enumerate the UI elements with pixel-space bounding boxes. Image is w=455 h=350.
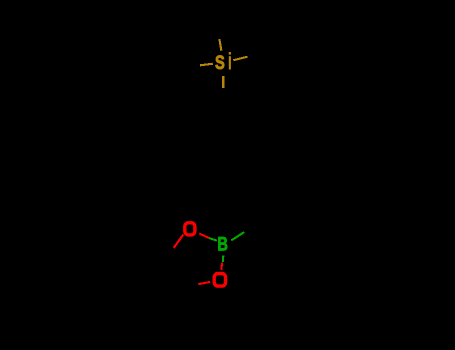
svg-text:B: B	[217, 234, 228, 255]
atom label B	[217, 234, 228, 255]
atom label O1	[185, 223, 195, 235]
atom label Si : letter i stem	[229, 56, 231, 69]
bond Si-CH3 left	[200, 64, 213, 66]
bond O1-C3 red half	[174, 235, 184, 248]
bond O1-B green half	[209, 238, 217, 241]
bond B-C1 aryl green half	[231, 232, 244, 240]
atom label Si : letter i dot	[229, 52, 231, 55]
bond Si-CH3 up	[219, 39, 221, 51]
bond B-O2 green half	[222, 256, 225, 263]
bond Si-CH3 right	[233, 57, 247, 61]
bond Si-C aryl down	[222, 76, 224, 88]
atom label Si : letter S	[215, 51, 225, 74]
bond O2-C4 red half	[198, 282, 210, 284]
bond O1-B red half	[199, 234, 209, 238]
svg-text:S: S	[215, 51, 225, 74]
atom label O2	[214, 274, 225, 287]
bond B-O2 red half	[220, 263, 223, 270]
